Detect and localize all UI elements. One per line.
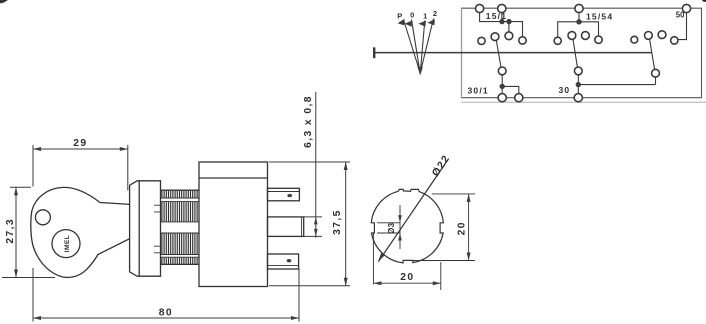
dim 37.5 extension lines: [269, 162, 350, 286]
svg-text:30: 30: [559, 85, 571, 95]
terminal T3 spade: [268, 254, 299, 269]
dim 6.3 line: [315, 92, 317, 238]
dim 29 arrows: [33, 147, 128, 151]
dim 6.3 extension lines: [303, 217, 322, 237]
svg-text:6,3 x 0,8: 6,3 x 0,8: [303, 95, 314, 148]
wire to E2: [502, 86, 519, 93]
svg-text:80: 80: [159, 308, 173, 319]
wire B1 down: [578, 13, 580, 22]
wire branch right: [579, 22, 599, 36]
svg-text:0: 0: [410, 10, 414, 19]
notch dim extension lines: [377, 223, 400, 233]
svg-text:15/1: 15/1: [486, 11, 507, 21]
notch dim arrows: [398, 215, 402, 240]
dim o22 arrow: [378, 253, 385, 262]
contact D2: [574, 67, 582, 75]
contact C1: [478, 37, 485, 44]
dim 27.3 line: [15, 187, 17, 277]
barrel top edge: [161, 189, 200, 191]
contact H1: [631, 36, 638, 43]
terminal circle A2: [498, 4, 506, 12]
svg-text:15/54: 15/54: [586, 11, 613, 21]
input terminal tick: [373, 47, 375, 58]
bottom terminal E1: [498, 94, 506, 102]
svg-text:37,5: 37,5: [332, 209, 343, 235]
svg-text:29: 29: [73, 138, 87, 149]
dim 80 line: [33, 317, 299, 319]
junction dot B: [576, 19, 581, 24]
dim o22 leader: [379, 160, 449, 262]
dim 80 extension lines: [33, 268, 299, 322]
terminal T1 spade: [268, 188, 300, 201]
dim 27.3 extension lines: [2, 187, 55, 277]
junction dot 30: [576, 82, 581, 87]
dim 20 bottom arrows: [373, 281, 440, 285]
terminal T2 middle blade: [268, 217, 304, 237]
svg-text:27,3: 27,3: [5, 218, 16, 244]
contact C4: [519, 37, 526, 44]
key head outline: [31, 187, 130, 277]
svg-text:1: 1: [423, 12, 427, 21]
contact F4: [595, 36, 602, 43]
svg-text:2: 2: [433, 9, 437, 18]
contact H3: [658, 31, 666, 39]
contact D3: [652, 69, 660, 77]
G2: [554, 4, 655, 101]
selector pivot point: [418, 67, 423, 76]
junction dot 2: [506, 19, 511, 24]
corner scan artifact top-left: [0, 0, 8, 4]
contact F2: [568, 32, 576, 40]
terminal T1 face line: [268, 191, 300, 193]
moving arm F2 to D2: [573, 39, 577, 67]
notch dim line: [399, 205, 401, 249]
wire D1 down: [501, 75, 503, 94]
junction dot 30/1: [500, 84, 505, 89]
dim 29 extension lines: [33, 145, 128, 191]
dim 20 right extension lines: [410, 194, 475, 261]
svg-text:Ø22: Ø22: [430, 153, 452, 179]
key ring hole: [35, 210, 50, 225]
dim 6.3 arrows: [314, 217, 318, 237]
terminal circle A1: [476, 4, 484, 12]
G1: [468, 4, 527, 101]
junction dot 1: [499, 19, 504, 24]
IMEL logo circle: [52, 230, 80, 258]
terminal circle B1: [575, 4, 583, 12]
svg-text:Ø3: Ø3: [387, 222, 396, 233]
contact box: [462, 8, 702, 98]
barrel band boundary lines: [161, 198, 200, 257]
bottom terminal E2: [515, 94, 523, 102]
selector fan arrowheads: [398, 19, 435, 27]
contact H2: [645, 32, 653, 40]
switch body: [199, 162, 268, 287]
svg-text:20: 20: [456, 221, 467, 235]
dim 37.5 arrows: [344, 162, 348, 286]
wire C3 up: [508, 22, 510, 32]
dim 20 bottom extension lines: [373, 233, 440, 290]
scan shadow line under box: [461, 101, 706, 103]
selector fan lines: [404, 19, 434, 73]
moving arm H2 to D3: [650, 39, 655, 69]
wire 30 rail to G3: [578, 84, 655, 86]
dim 29 line: [33, 148, 128, 150]
contact C3: [505, 32, 513, 40]
contact F3: [582, 32, 590, 40]
svg-text:IMEL: IMEL: [64, 235, 71, 252]
wire A1 down and across: [480, 13, 523, 37]
contact C2: [491, 33, 499, 41]
thread hatching band 1: [162, 191, 197, 264]
dim 20 right line: [468, 194, 470, 261]
terminal T3 hole: [287, 259, 292, 262]
bottom terminal E3: [574, 94, 582, 102]
bezel seam: [138, 181, 140, 276]
dim 27.3 arrows: [14, 187, 18, 277]
svg-text:P: P: [397, 12, 402, 21]
mounting hole outline with notches: [371, 189, 443, 263]
wire 50 down-left: [678, 13, 687, 40]
dim 20 right arrows: [467, 194, 471, 261]
terminal circle 50: [682, 4, 690, 12]
contact F1: [554, 37, 561, 44]
corner scan artifact top-right: [702, 0, 706, 2]
terminal T3 face line: [268, 264, 299, 266]
contact D1: [498, 67, 506, 75]
svg-text:50: 50: [676, 11, 685, 20]
svg-text:20: 20: [400, 272, 414, 283]
dim 37.5 line: [345, 162, 347, 286]
terminal T1 hole: [287, 194, 292, 197]
G3: [631, 4, 691, 84]
moving arm C2 to D1: [496, 40, 501, 67]
dim 80 arrows: [33, 316, 299, 320]
wire A2 down: [501, 13, 503, 22]
contact H4: [671, 37, 678, 44]
wire D2 down: [577, 75, 579, 94]
body cap seam: [199, 177, 268, 179]
dim 20 bottom line: [373, 282, 440, 284]
wire D3 down to 30 rail: [655, 77, 657, 85]
main rail wire: [374, 52, 652, 54]
barrel bottom edge: [161, 263, 200, 265]
bezel outline: [130, 181, 161, 276]
wire branch left: [558, 22, 579, 37]
bezel cylinder step lines: [154, 205, 161, 253]
svg-text:30/1: 30/1: [468, 86, 489, 96]
